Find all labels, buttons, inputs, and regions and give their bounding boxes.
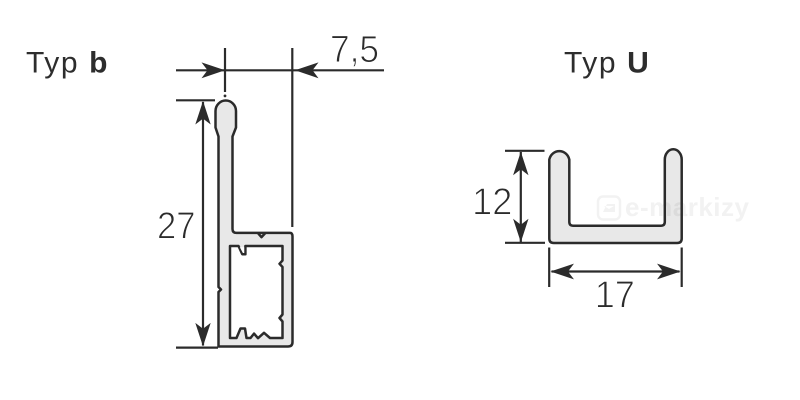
svg-text:Typ b: Typ b xyxy=(26,47,109,80)
svg-text:Typ U: Typ U xyxy=(564,47,650,80)
svg-text:27: 27 xyxy=(157,204,195,247)
svg-text:12: 12 xyxy=(472,180,512,223)
svg-text:e-markizy: e-markizy xyxy=(625,192,749,222)
svg-text:17: 17 xyxy=(595,273,635,316)
svg-text:7,5: 7,5 xyxy=(330,28,379,70)
